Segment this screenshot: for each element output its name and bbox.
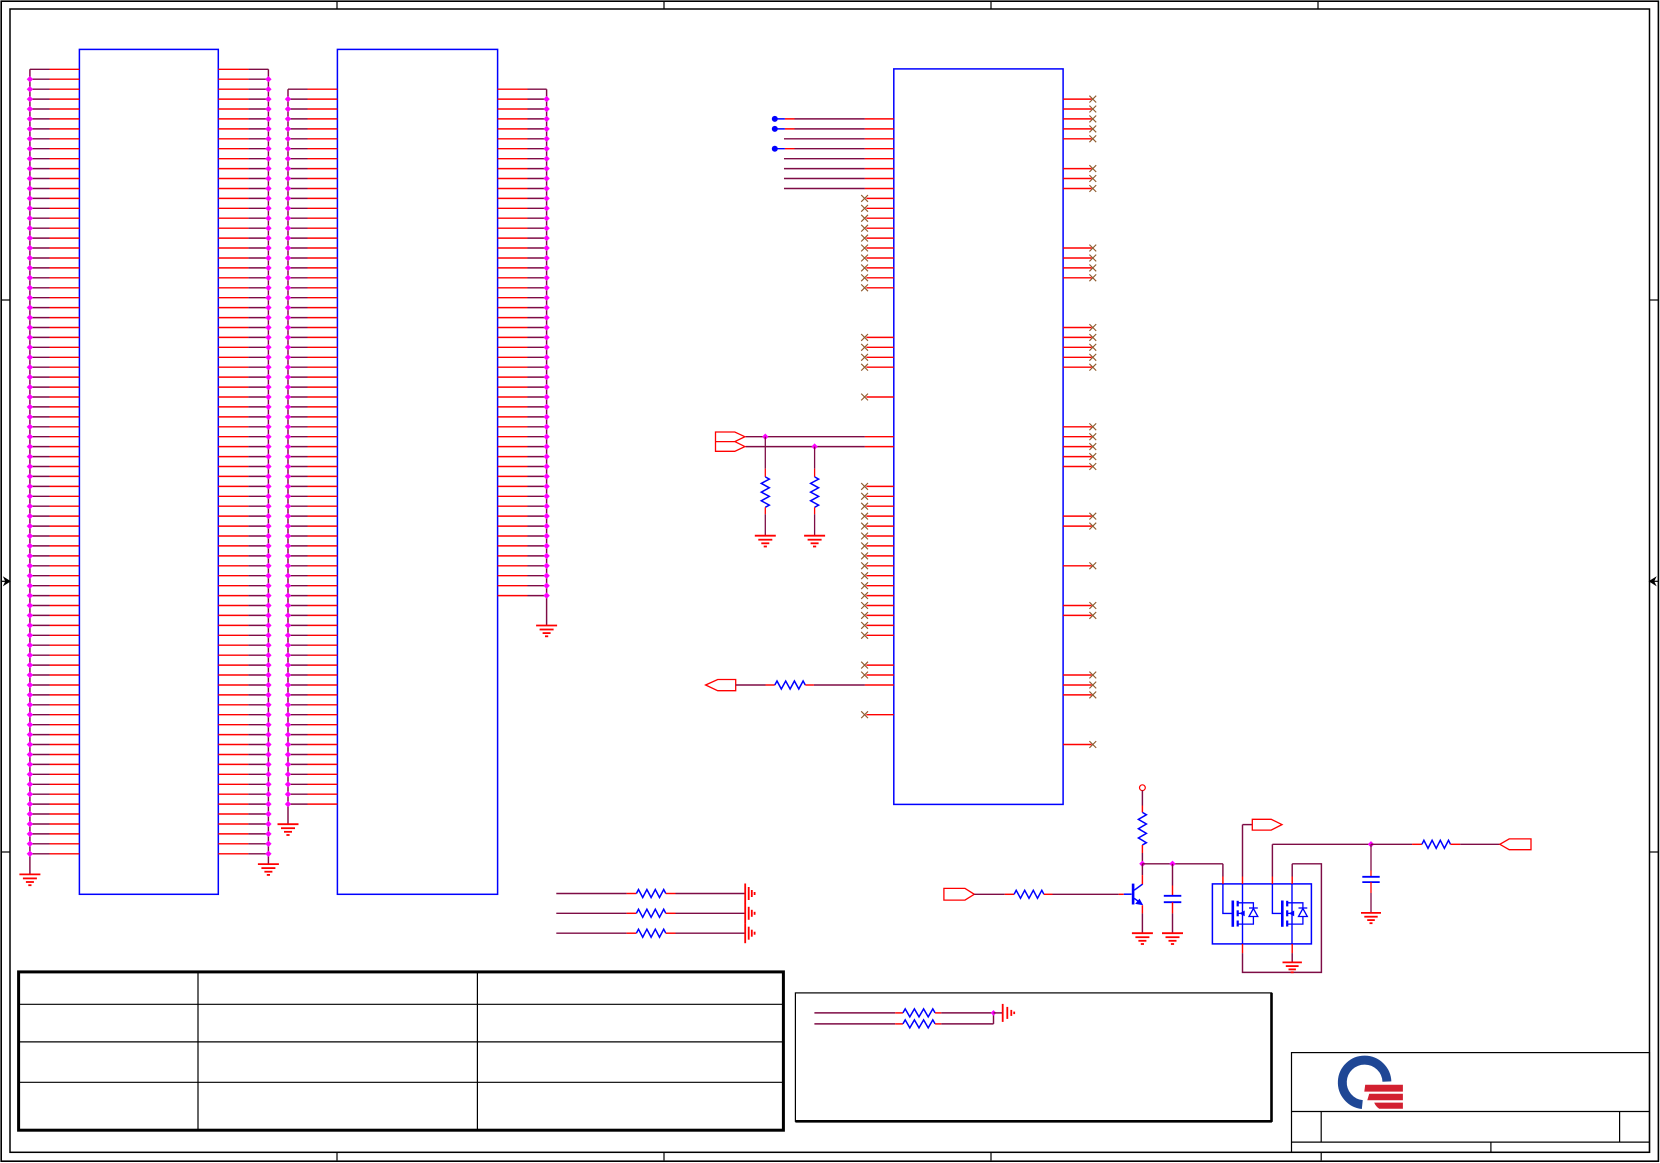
- wire collector node to MOSFET gate: [1142, 863, 1223, 865]
- resistor R10: [636, 890, 665, 898]
- revision table frame: [19, 972, 784, 1130]
- ground J2 left bus: [278, 823, 299, 825]
- border zone tick right mid: [1650, 580, 1659, 582]
- resistor R5 base series: [1014, 890, 1044, 898]
- power pin circle: [1140, 785, 1146, 791]
- wire to termination resistor R10: [556, 893, 626, 895]
- border zone tick right 2: [1650, 851, 1659, 853]
- wire C6 node to R6: [1371, 843, 1412, 845]
- border zone tick bottom 3: [990, 1152, 992, 1160]
- border mid arrow right: [1650, 578, 1656, 585]
- ground J2 right bus: [536, 625, 557, 627]
- resistor R2 pulldown: [814, 447, 816, 469]
- border zone tick left mid: [1, 580, 10, 582]
- net bus J1 left: [29, 69, 31, 874]
- net bus J2 right: [546, 89, 548, 625]
- wire Q3 source to ground: [1291, 944, 1293, 953]
- transistor Q1 NPN: [1124, 893, 1132, 895]
- wire net to U1 pin (lower): [746, 446, 865, 448]
- border zone tick right 1: [1650, 299, 1659, 301]
- wires J1 right pins: [218, 69, 248, 854]
- revision table row line 1: [19, 1003, 784, 1005]
- no-connect pins U1 right group I: [1063, 675, 1091, 695]
- company logo stripe 2: [1367, 1094, 1403, 1100]
- ground Q1 emitter: [1132, 932, 1153, 934]
- wire gate riser Q2: [1222, 864, 1224, 877]
- no-connect pins U1 right group C: [1063, 248, 1091, 278]
- no-connect pins U1 right group E: [1063, 427, 1091, 467]
- border zone tick left 2: [1, 851, 10, 853]
- wire to termination resistor R12: [556, 932, 626, 934]
- MOSFET Q3 symbol: [1272, 884, 1282, 914]
- title block divider row2 left: [1320, 1112, 1322, 1143]
- border zone tick top 4: [1317, 1, 1319, 9]
- wire R3 to U1: [805, 684, 814, 686]
- no-connect pins U1 left group E: [866, 665, 893, 675]
- off-page connector arrow enable: [1252, 819, 1282, 830]
- wire net to U1 pin (upper): [746, 436, 865, 438]
- wire connector to R5: [974, 893, 1005, 895]
- resistor R8: [903, 1020, 935, 1028]
- wire R5 to Q1 base: [1044, 893, 1053, 895]
- ground below R1: [755, 535, 776, 537]
- no-connect pins U1 right group A: [1063, 99, 1091, 139]
- no-connect pins U1 right group D: [1063, 328, 1091, 368]
- title block divider row2 right: [1619, 1112, 1621, 1143]
- wire R10 to ground: [666, 893, 676, 895]
- wire drain riser Q3: [1291, 877, 1293, 884]
- ground (rotated) for R11: [744, 903, 746, 923]
- border zone tick bottom 1: [336, 1152, 338, 1160]
- company logo stripe 3: [1374, 1103, 1403, 1109]
- company logo ring: [1342, 1060, 1387, 1104]
- wire to termination resistor R11: [556, 912, 626, 914]
- no-connect pins U1 left group D: [866, 486, 893, 635]
- wires J1 left pins: [30, 69, 50, 854]
- wire R4 to collector node: [1141, 845, 1143, 853]
- ground C6: [1361, 912, 1381, 914]
- resistor R12: [636, 929, 665, 937]
- wire Q3 gate net to C6 node: [1272, 843, 1371, 845]
- wire Q1 collector: [1141, 864, 1143, 875]
- resistor R11: [636, 909, 665, 917]
- ground J1 right bus: [258, 863, 279, 865]
- notes box frame: [795, 993, 1271, 1121]
- junction dots J1 left bus: [27, 76, 33, 82]
- title block divider row3: [1490, 1142, 1492, 1152]
- ground (rotated) notes box: [1002, 1004, 1004, 1022]
- no-connect pins U1 left group B: [866, 337, 893, 367]
- wire drain riser Q2 from enable arrow: [1242, 825, 1244, 877]
- ground J1 left bus: [19, 873, 40, 875]
- resistor R3 series: [775, 681, 806, 689]
- no-connect pins U1 right group F: [1063, 516, 1091, 526]
- wire from connector to R3: [736, 684, 766, 686]
- wire R11 to ground: [666, 912, 676, 914]
- connector J2 body: [337, 49, 497, 894]
- revision table row line 3: [19, 1081, 784, 1083]
- resistor R4 collector pull-up: [1138, 812, 1146, 845]
- border zone tick left 1: [1, 299, 10, 301]
- title block frame: [1292, 1053, 1650, 1153]
- off-page connector arrow output: [1500, 839, 1531, 850]
- net bus J2 left: [287, 89, 289, 824]
- wire stub to enable arrow: [1243, 824, 1253, 826]
- wires U1 left input group: [775, 119, 785, 149]
- resistor R7: [903, 1009, 935, 1017]
- company logo stripe 1: [1364, 1085, 1403, 1092]
- ground Q3 source: [1283, 961, 1302, 963]
- no-connect pins U1 left group A: [866, 198, 893, 287]
- revision table column line 1: [197, 972, 199, 1130]
- connector J1 body: [79, 49, 218, 894]
- revision table row line 2: [19, 1041, 784, 1043]
- wire to series resistor R7: [814, 1012, 895, 1014]
- junction dots J2 left bus: [285, 96, 291, 102]
- wire power to R4: [1141, 790, 1143, 805]
- no-connect pins U1 right group H: [1063, 606, 1091, 616]
- border mid arrow left: [4, 578, 10, 585]
- wires J2 right pins: [498, 89, 528, 595]
- wire R7 to ground node: [935, 1012, 941, 1014]
- wire gate riser Q3: [1271, 877, 1273, 884]
- junction dot node A: [762, 434, 768, 440]
- MOSFET Q2 symbol: [1223, 884, 1233, 914]
- MOSFET pair U2 body: [1212, 884, 1311, 944]
- IC U1 body: [894, 69, 1063, 805]
- no-connect pin U1 right single G: [1063, 565, 1091, 567]
- no-connect pin U1 left single C: [866, 396, 893, 398]
- junction dots J2 right bus: [543, 96, 549, 102]
- ground (rotated) for R10: [744, 884, 746, 904]
- capacitor C5: [1172, 864, 1174, 886]
- capacitor C6: [1370, 844, 1372, 870]
- ground (rotated) for R12: [744, 923, 746, 943]
- off-page connector arrow (left): [706, 680, 736, 691]
- off-page connector arrow base input: [944, 888, 974, 900]
- title block strip divider: [1320, 1152, 1322, 1160]
- border zone tick top 3: [990, 1, 992, 9]
- revision table column line 2: [476, 972, 478, 1130]
- wire Q2 source loop down: [1242, 944, 1244, 953]
- resistor R1 pulldown: [764, 437, 766, 469]
- no-connect pin U1 left single F: [866, 714, 893, 716]
- wires J2 left pins: [288, 89, 308, 804]
- off-page connector dual arrow: [716, 432, 745, 451]
- junction dot C6 node: [1368, 841, 1374, 847]
- wire Q1 emitter to ground: [1141, 905, 1143, 913]
- net bus J1 right: [267, 69, 269, 864]
- junction dot notes ground node: [991, 1010, 997, 1016]
- ground C5: [1162, 932, 1183, 934]
- border zone tick bottom 2: [663, 1152, 665, 1160]
- wire R8 to ground node: [935, 1023, 941, 1025]
- border zone tick top 1: [336, 1, 338, 9]
- no-connect pin U1 right single J: [1063, 744, 1091, 746]
- border zone tick top 2: [663, 1, 665, 9]
- junction dot collector node: [1139, 861, 1145, 867]
- wire to series resistor R8: [814, 1023, 895, 1025]
- junction dots J1 right bus: [265, 76, 271, 82]
- wire R6 to off-page connector: [1451, 843, 1461, 845]
- resistor R6 series: [1422, 840, 1451, 848]
- junction dots U1 left inputs: [772, 116, 778, 122]
- junction dot at C5 tap: [1169, 861, 1175, 867]
- wire R12 to ground: [666, 932, 676, 934]
- title block line logo bottom: [1292, 1111, 1650, 1113]
- no-connect pins U1 right group B: [1063, 169, 1091, 189]
- title block line row2 bottom: [1292, 1141, 1650, 1143]
- wire node to rotated ground: [994, 1012, 1003, 1014]
- ground below R2: [804, 535, 825, 537]
- junction dot node B: [811, 443, 817, 449]
